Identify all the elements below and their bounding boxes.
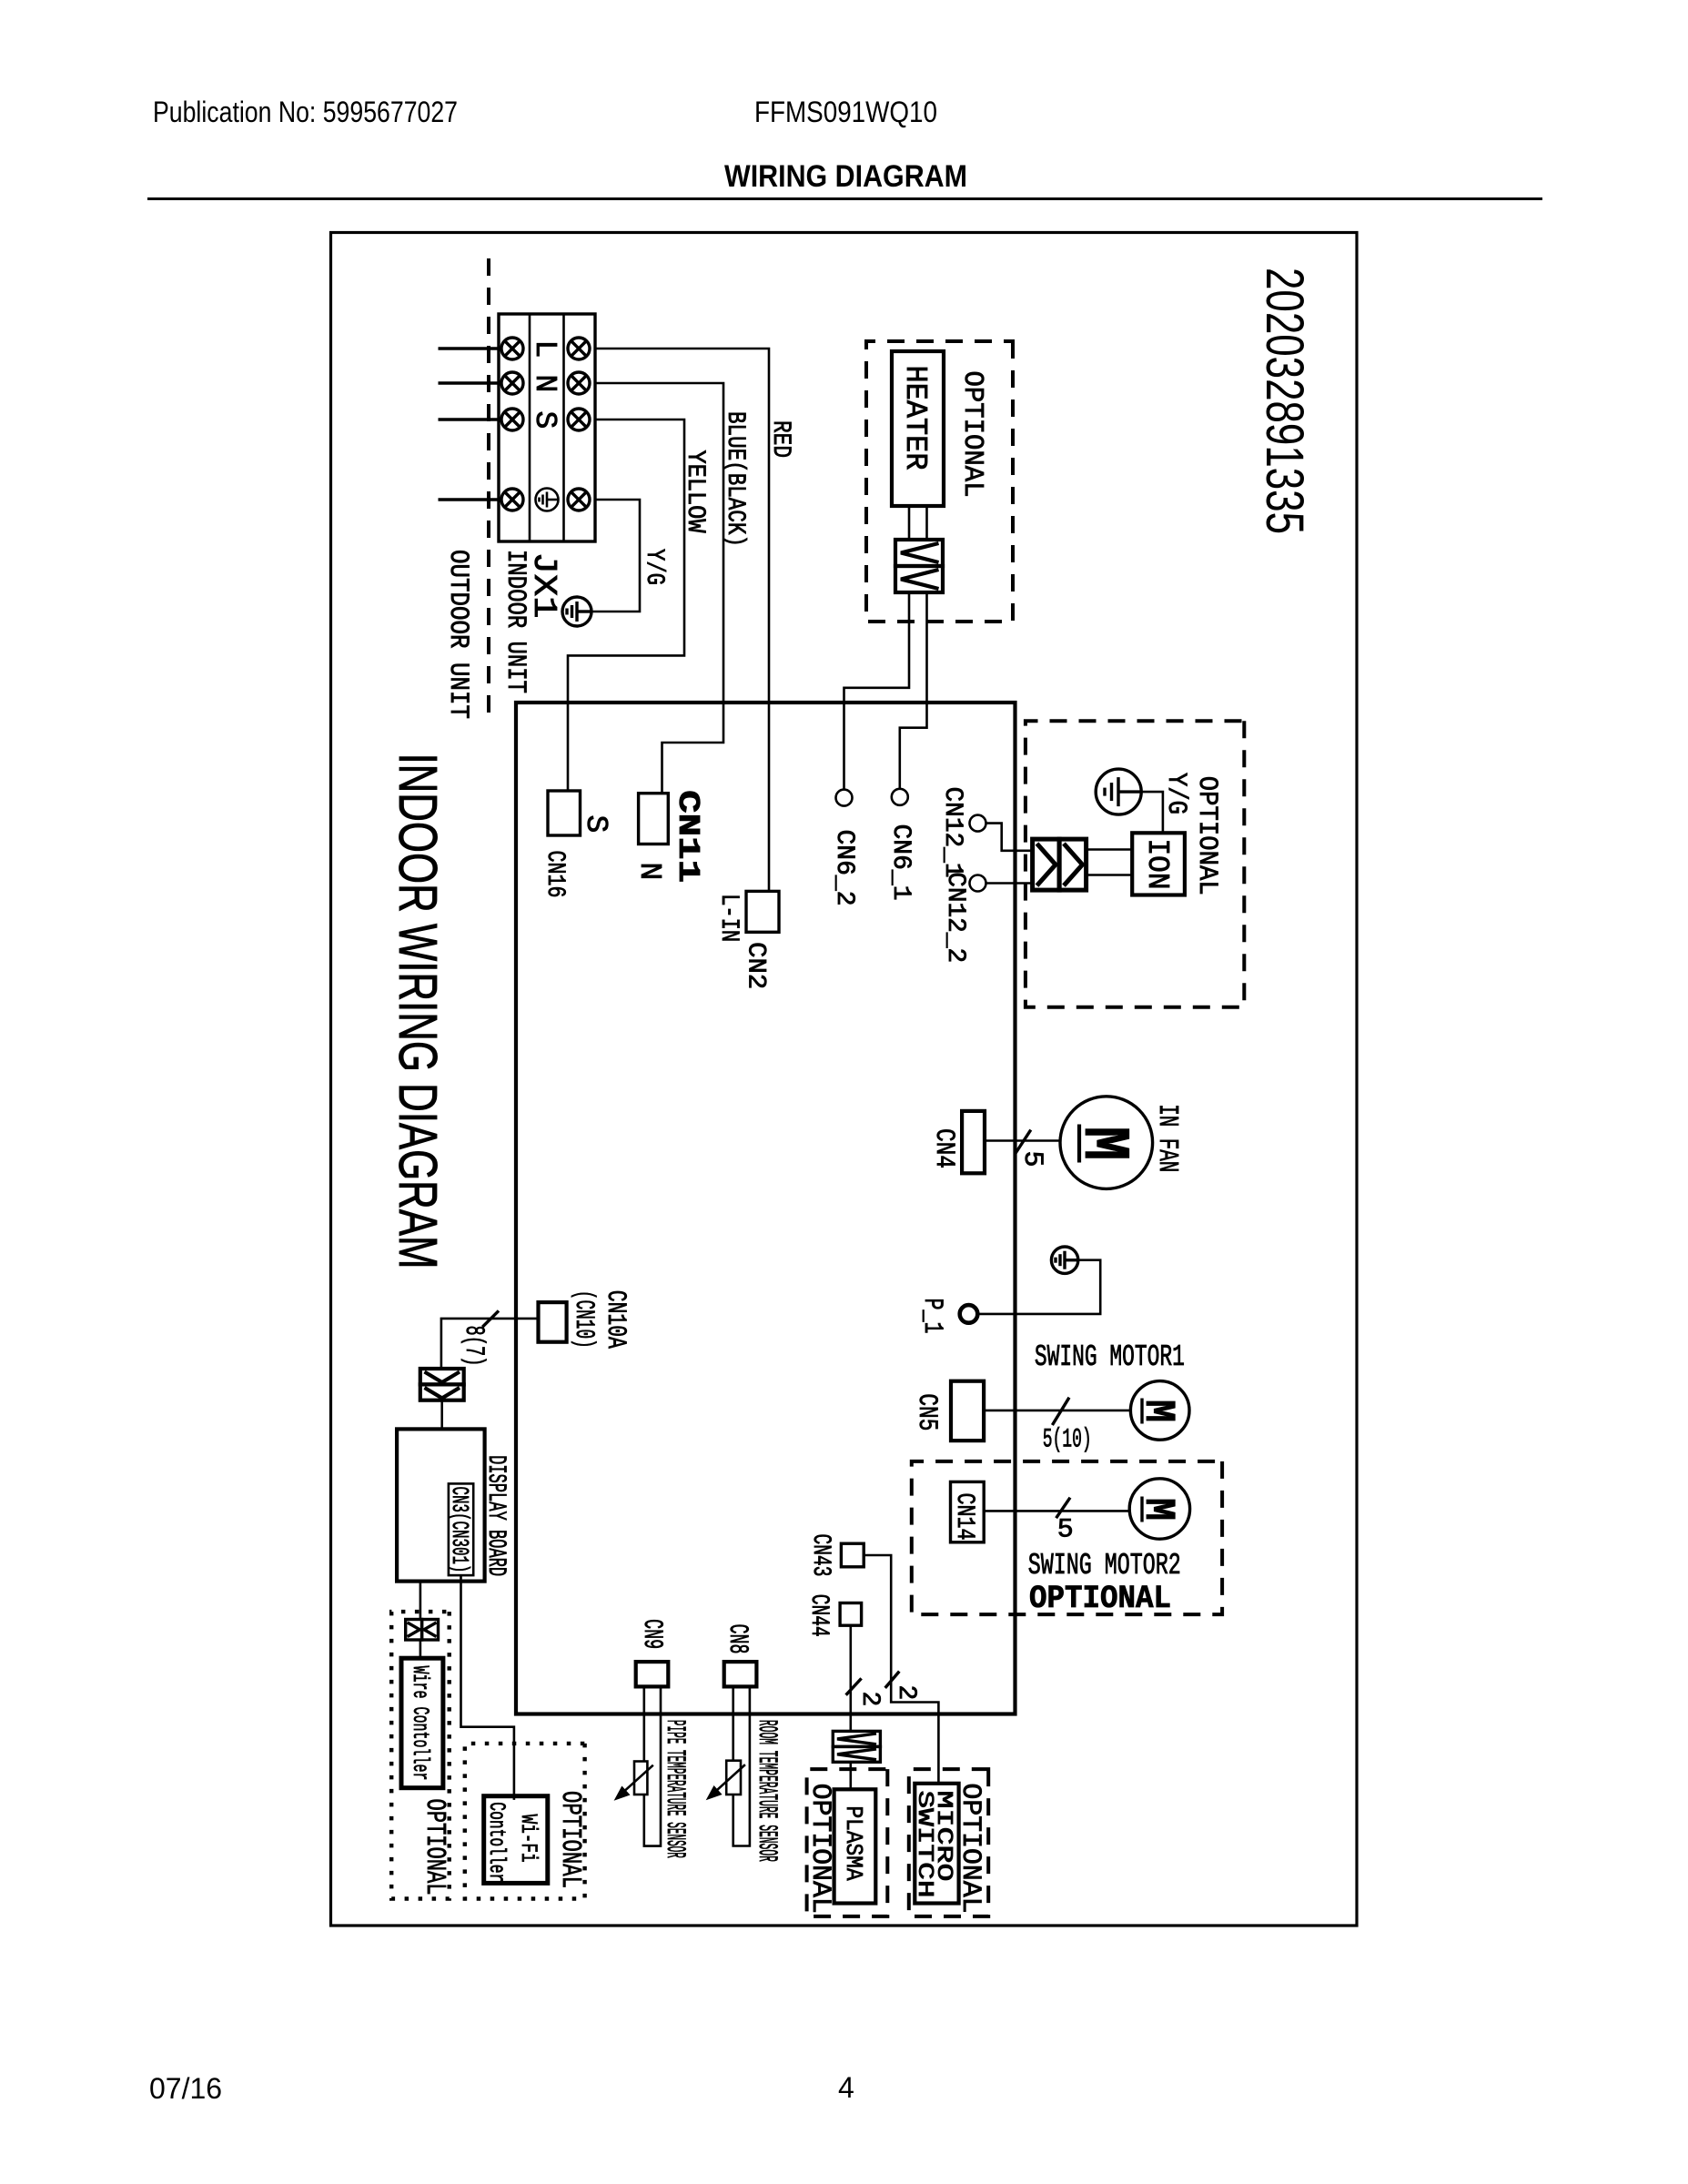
wire CN12_2 to ION plug	[986, 882, 1033, 885]
wire RED from terminal L to CN2	[595, 349, 769, 891]
svg-text:INDOOR WIRING DIAGRAM: INDOOR WIRING DIAGRAM	[388, 753, 448, 1269]
terminal S outdoor screw	[568, 409, 590, 430]
svg-text:2: 2	[892, 1685, 920, 1701]
svg-text:OUTDOOR UNIT: OUTDOOR UNIT	[442, 550, 473, 719]
wire heater to plug lower	[908, 506, 911, 540]
wire ION box to plug left	[1087, 848, 1133, 851]
earth ground symbol near JX1	[562, 597, 591, 626]
supply wire stub L	[439, 347, 500, 349]
connector CN16	[548, 791, 581, 835]
title rule line	[147, 197, 1542, 200]
pipe temperature sensor thermistor	[634, 1762, 647, 1795]
svg-text:Y/G: Y/G	[640, 549, 668, 585]
connector CN4	[962, 1111, 985, 1173]
svg-text:S: S	[579, 815, 612, 834]
motor swing motor1	[1130, 1381, 1189, 1441]
bus slash CN43	[885, 1672, 900, 1688]
svg-text:M: M	[1133, 1400, 1181, 1422]
svg-text:S: S	[528, 411, 561, 430]
svg-text:Publication No: 5995677027: Publication No: 5995677027	[153, 96, 458, 128]
wire CN9 to pipe sensor return	[644, 1686, 661, 1845]
ION optional dashed box	[1026, 721, 1244, 1006]
svg-text:YELLOW: YELLOW	[681, 450, 709, 533]
svg-text:4: 4	[838, 2071, 854, 2104]
wire plug to plasma	[849, 1762, 852, 1789]
svg-text:Wi-Fi: Wi-Fi	[515, 1815, 541, 1863]
svg-text:OPTIONAL: OPTIONAL	[1029, 1581, 1171, 1617]
svg-text:P_1: P_1	[916, 1299, 947, 1334]
wire CN14 to swing motor2	[984, 1510, 1129, 1512]
supply wire stub S	[439, 418, 500, 420]
svg-text:HEATER: HEATER	[898, 366, 932, 470]
wire heater to plug upper	[925, 506, 928, 540]
supply wire stub N	[439, 381, 500, 384]
wire CN3 to wifi controller	[461, 1575, 514, 1800]
wire CN8 to room sensor return	[733, 1686, 750, 1845]
earth ground symbol ION	[1096, 769, 1141, 814]
svg-text:DISPLAY BOARD: DISPLAY BOARD	[481, 1455, 510, 1576]
wire CN5 to swing motor1	[984, 1410, 1130, 1412]
svg-text:OPTIONAL: OPTIONAL	[956, 371, 988, 498]
wire CN44 to plasma plug	[849, 1625, 852, 1731]
pipe sensor arrow	[614, 1765, 653, 1801]
svg-text:CN6_1: CN6_1	[886, 824, 915, 901]
svg-text:CN5: CN5	[911, 1393, 942, 1431]
bus slash CN14	[1056, 1498, 1070, 1519]
svg-text:(CN10): (CN10)	[568, 1290, 599, 1349]
svg-text:OPTIONAL: OPTIONAL	[554, 1791, 586, 1888]
svg-text:ROOM TEMPERATURE SENSOR: ROOM TEMPERATURE SENSOR	[751, 1720, 782, 1862]
node P_1	[960, 1305, 978, 1323]
diagram outer border frame	[331, 233, 1358, 1926]
svg-text:CN8: CN8	[722, 1624, 753, 1654]
svg-text:CN44: CN44	[804, 1594, 833, 1637]
ION generator box	[1132, 833, 1185, 895]
wifi controller box	[484, 1796, 548, 1884]
svg-text:M: M	[1066, 1127, 1140, 1161]
node CN12_1	[970, 815, 986, 832]
svg-text:CN6_2: CN6_2	[830, 830, 858, 906]
bus slash CN10A	[482, 1310, 499, 1327]
connector CN14	[951, 1481, 985, 1542]
connector CN9	[636, 1662, 669, 1686]
svg-text:RED: RED	[766, 420, 794, 458]
terminal ground symbol	[536, 489, 559, 511]
connector CN43	[841, 1543, 864, 1567]
wire Y/G from terminal ground to earth	[591, 500, 640, 612]
svg-text:CN14: CN14	[950, 1493, 978, 1541]
wire controller box	[401, 1658, 443, 1788]
svg-text:CN11: CN11	[671, 790, 704, 883]
svg-text:5: 5	[1057, 1515, 1074, 1546]
bus slash CN44	[846, 1678, 862, 1694]
node CN6_1	[892, 789, 908, 805]
svg-text:8(7): 8(7)	[458, 1326, 489, 1367]
svg-text:5: 5	[1016, 1151, 1047, 1168]
wire plug to wire controller	[419, 1640, 422, 1658]
main PCB board outline	[516, 703, 1016, 1714]
svg-text:CN12_2: CN12_2	[941, 872, 969, 963]
svg-text:SWITCH: SWITCH	[912, 1791, 936, 1898]
supply wire stub ground	[439, 498, 500, 500]
svg-text:N: N	[528, 375, 561, 393]
svg-text:2: 2	[855, 1692, 884, 1707]
svg-text:CN16: CN16	[541, 851, 569, 898]
terminal L indoor screw	[501, 338, 523, 359]
wire CN9 to pipe sensor top	[642, 1686, 645, 1761]
wire controller optional dotted box	[391, 1612, 450, 1898]
plasma box	[834, 1789, 876, 1903]
connector CN11	[639, 794, 669, 844]
display board outline	[397, 1429, 485, 1581]
terminal ground outdoor screw	[568, 489, 590, 511]
heater element	[892, 351, 944, 506]
svg-text:PLASMA: PLASMA	[840, 1806, 867, 1881]
terminal N indoor screw	[501, 372, 523, 394]
svg-text:CN4: CN4	[928, 1128, 959, 1168]
wire ION earth to ION box	[1141, 792, 1163, 833]
bus slash CN4	[1015, 1130, 1031, 1155]
display connector plug	[420, 1369, 464, 1400]
wire CN43 to micro switch	[864, 1555, 938, 1784]
earth ground symbol P_1	[1051, 1247, 1077, 1273]
svg-text:L: L	[528, 340, 561, 359]
wire BLUE(BLACK) from terminal N to CN11	[595, 383, 723, 794]
terminal block row divider upper	[562, 314, 565, 541]
wire plug to display board	[440, 1400, 443, 1431]
wire YELLOW from terminal S to CN16	[568, 420, 684, 791]
wire display board to wire controller plug	[419, 1582, 422, 1620]
svg-text:BLUE(BLACK): BLUE(BLACK)	[721, 411, 749, 547]
connector CN5	[951, 1381, 984, 1441]
heater optional dashed box	[866, 341, 1013, 622]
svg-text:202032891335: 202032891335	[1255, 268, 1314, 534]
wire CN12_1 to ION plug	[986, 824, 1033, 851]
svg-text:IN FAN: IN FAN	[1151, 1104, 1183, 1172]
node CN12_2	[970, 875, 986, 892]
svg-text:OPTIONAL: OPTIONAL	[419, 1799, 450, 1896]
svg-text:CN12_1: CN12_1	[938, 787, 966, 878]
room sensor arrow	[706, 1764, 745, 1800]
terminal block JX1 outline	[499, 314, 595, 541]
wire heater plug to CN6_1	[900, 592, 927, 789]
node CN6_2	[836, 790, 853, 806]
connector CN2	[746, 891, 779, 932]
connector CN10A	[539, 1302, 567, 1342]
wire ION box to plug right	[1087, 874, 1133, 876]
wire CN10A to display plug	[441, 1319, 539, 1369]
terminal S indoor screw	[501, 409, 523, 430]
swing motor2 optional dashed box	[912, 1461, 1222, 1614]
svg-text:CN9: CN9	[636, 1619, 667, 1649]
connector CN44	[840, 1603, 862, 1626]
svg-text:ION: ION	[1140, 839, 1174, 890]
plasma connector plug	[833, 1731, 880, 1762]
motor swing motor2	[1129, 1479, 1189, 1539]
svg-text:PIPE TEMPERATURE SENSOR: PIPE TEMPERATURE SENSOR	[659, 1720, 690, 1858]
svg-text:FFMS091WQ10: FFMS091WQ10	[754, 96, 937, 128]
plasma optional dashed box	[807, 1769, 888, 1916]
motor IN FAN	[1060, 1097, 1153, 1189]
wire earth to node P_1	[977, 1260, 1100, 1314]
svg-text:INDOOR UNIT: INDOOR UNIT	[500, 550, 531, 693]
svg-text:L-IN: L-IN	[714, 894, 743, 942]
svg-text:CN43: CN43	[806, 1534, 834, 1577]
terminal ground indoor screw	[501, 489, 523, 511]
svg-text:OPTIONAL: OPTIONAL	[1191, 776, 1222, 895]
wire CN8 to room sensor top	[732, 1686, 734, 1760]
wire heater plug to CN6_2	[844, 592, 910, 790]
svg-text:07/16: 07/16	[149, 2072, 222, 2105]
connector CN8	[724, 1662, 757, 1686]
terminal N outdoor screw	[568, 372, 590, 394]
svg-text:CN10A: CN10A	[600, 1290, 631, 1349]
svg-text:Y/G: Y/G	[1160, 773, 1191, 814]
svg-text:Contoller: Contoller	[483, 1802, 510, 1882]
indoor outdoor dashed separator	[487, 258, 490, 719]
svg-text:OPTIONAL: OPTIONAL	[804, 1784, 835, 1914]
room temperature sensor thermistor	[726, 1761, 741, 1795]
svg-text:M: M	[1133, 1498, 1181, 1521]
svg-text:5(10): 5(10)	[1043, 1425, 1092, 1456]
svg-text:CN3(CN301): CN3(CN301)	[446, 1487, 473, 1573]
bus slash CN5	[1052, 1398, 1069, 1425]
svg-text:SWING MOTOR1: SWING MOTOR1	[1035, 1340, 1185, 1374]
svg-text:CN2: CN2	[742, 942, 770, 989]
terminal L outdoor screw	[568, 338, 590, 359]
wire controller connector plug	[406, 1620, 439, 1641]
ION connector plug	[1033, 839, 1087, 890]
terminal block row divider lower	[529, 314, 531, 541]
connector CN3(CN301) box	[449, 1483, 473, 1575]
svg-text:SWING MOTOR2: SWING MOTOR2	[1028, 1549, 1181, 1582]
svg-text:N: N	[632, 863, 666, 881]
wifi optional dotted box	[465, 1744, 585, 1899]
wire CN4 to fan motor	[985, 1139, 1060, 1142]
svg-text:Wire Contoller: Wire Contoller	[407, 1666, 433, 1781]
micro switch optional dashed box	[909, 1769, 988, 1916]
micro switch box	[915, 1784, 958, 1904]
svg-text:OPTIONAL: OPTIONAL	[955, 1784, 986, 1914]
heater connector plug	[895, 540, 943, 592]
svg-text:WIRING DIAGRAM: WIRING DIAGRAM	[724, 159, 967, 194]
